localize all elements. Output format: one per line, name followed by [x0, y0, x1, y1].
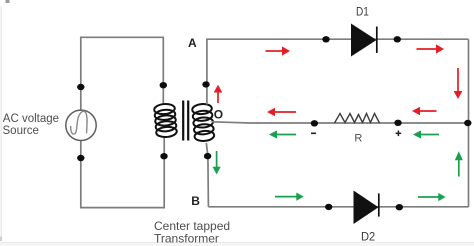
junction dot: D1 cathode [394, 36, 401, 42]
current arrow red: up at O [214, 85, 223, 103]
junction dot: right edge middle [464, 120, 471, 126]
wire: center tap O rail to resistor and right edge [212, 122, 469, 123]
current arrow green: B rail toward D2 [275, 193, 304, 201]
current arrow red: right edge down [454, 68, 463, 99]
wire: node A vertical + top rail to D1 and right edge [207, 39, 469, 104]
current arrow green: down below O [213, 151, 221, 174]
wire: secondary bottom to node B vertical [206, 143, 208, 207]
svg-text:R: R [354, 132, 362, 144]
current arrow red: A rail toward D1 [266, 46, 291, 55]
svg-text:AC voltage: AC voltage [3, 113, 59, 125]
left edge bottom mark [0, 237, 2, 242]
wire: primary loop bottom rail [81, 138, 164, 208]
junction dot: primary top [160, 82, 167, 88]
AC source sine wave [71, 111, 87, 134]
AC source V1 [66, 110, 96, 140]
wire: bottom rail B to D2 to right edge [208, 206, 468, 208]
svg-text:B: B [191, 194, 200, 208]
current arrow green: after D2 [418, 193, 446, 201]
junction dot: D2 cathode [396, 204, 403, 210]
junction dot: source top [77, 84, 84, 90]
page bottom border [0, 242, 474, 246]
current arrow green: middle rail right, leftward [413, 130, 439, 138]
svg-text:A: A [188, 36, 197, 50]
transformer T1 primary coil [154, 103, 177, 138]
junction dot: primary bottom [160, 153, 167, 159]
current arrow red: middle rail right, leftward [412, 107, 437, 116]
top-left smudge [6, 0, 10, 3]
junction dot: resistor right [394, 120, 401, 126]
svg-text:O: O [214, 108, 223, 122]
current arrow red: after D1 [417, 44, 445, 53]
diode D2 [354, 191, 379, 225]
svg-text:D1: D1 [356, 7, 369, 19]
page left border [0, 6, 2, 238]
wire: primary loop top rail [81, 37, 164, 110]
junction dot: secondary bottom [204, 153, 211, 159]
polarity label minus [311, 132, 316, 134]
transformer T1 core [183, 101, 188, 141]
polarity label plus [396, 131, 402, 137]
current arrow green: right edge up [455, 151, 463, 176]
resistor R [335, 114, 380, 124]
junction dot: D2 anode [325, 204, 332, 210]
current arrow red: middle rail left, leftward [267, 108, 296, 117]
junction dot: source bottom [77, 155, 84, 161]
svg-text:D2: D2 [361, 231, 375, 243]
svg-text:Source: Source [3, 125, 39, 137]
svg-text:Transformer: Transformer [154, 231, 219, 245]
junction dot: resistor left [311, 120, 318, 126]
current arrow green: middle rail left, leftward [269, 130, 296, 138]
wire: right edge vertical [468, 39, 470, 207]
junction dot: D1 anode [322, 36, 329, 42]
junction dot: secondary top [202, 81, 209, 87]
transformer T1 secondary coil [192, 103, 215, 142]
diode D1 [351, 24, 377, 57]
